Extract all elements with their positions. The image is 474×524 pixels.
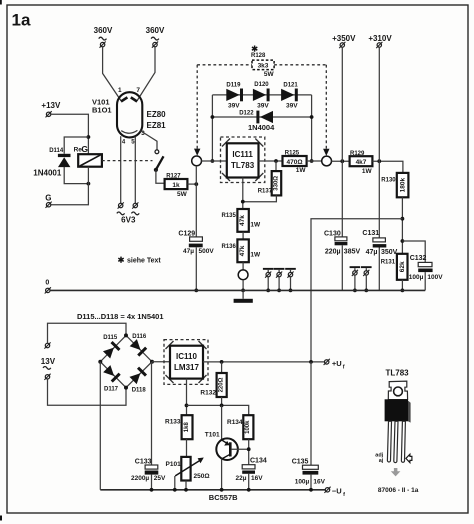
switch blade <box>156 156 164 169</box>
svg-text:100k: 100k <box>245 420 251 434</box>
terminal 360V right <box>152 42 158 48</box>
wire bottom rail <box>100 489 325 491</box>
svg-text:C132: C132 <box>410 255 427 262</box>
wire T101 base to R134/C134 <box>232 448 249 450</box>
wire R136 to node circle <box>242 262 244 270</box>
cathode arc inside tube <box>121 130 137 133</box>
svg-text:R137: R137 <box>258 188 273 194</box>
terminal +350V <box>339 42 345 48</box>
package leg 1 <box>387 421 391 462</box>
wire IC111 output to R125 <box>259 160 283 162</box>
package hole <box>394 387 403 396</box>
svg-text:EZ81: EZ81 <box>147 121 167 130</box>
tube V101 EZ80/EZ81 envelope <box>117 92 142 137</box>
wire bridge minus down to bottom rail <box>99 362 101 490</box>
svg-text:aj: aj <box>379 458 384 464</box>
svg-text:100µ: 100µ <box>409 274 424 281</box>
arrow marker pointing left <box>406 454 412 462</box>
wire blade to R127 <box>156 170 165 183</box>
wire P101 bottom to rail <box>185 481 187 490</box>
svg-text:47µ: 47µ <box>366 249 378 256</box>
note siehe Text <box>118 257 123 263</box>
wire 13V upper to bridge top <box>48 323 127 343</box>
terminal heater left <box>118 202 124 208</box>
svg-text:D122: D122 <box>239 111 254 117</box>
svg-text:250Ω: 250Ω <box>194 473 210 480</box>
svg-text:470Ω: 470Ω <box>286 159 302 166</box>
package leg 3 <box>401 421 405 462</box>
wire +310V rail down to C131 <box>378 47 380 238</box>
terminal G <box>46 202 52 208</box>
svg-text:87006 - II - 1a: 87006 - II - 1a <box>378 487 419 494</box>
svg-text:D116: D116 <box>132 334 147 340</box>
terminal 13V lower <box>44 374 50 380</box>
dashed control path horizontal <box>197 64 252 66</box>
svg-text:0: 0 <box>45 279 49 286</box>
terminal heater right <box>132 202 138 208</box>
package tab <box>388 381 407 400</box>
svg-text:39V: 39V <box>228 103 240 110</box>
svg-text:5W: 5W <box>264 71 275 78</box>
resistor R132 220ohm <box>221 362 223 373</box>
svg-text:1N4004: 1N4004 <box>248 123 275 132</box>
svg-text:180k: 180k <box>400 177 407 192</box>
svg-text:6V3: 6V3 <box>121 215 136 224</box>
svg-text:100µ: 100µ <box>295 478 310 485</box>
svg-text:+350V: +350V <box>332 34 356 43</box>
wire lead to tube pin 7 <box>137 47 155 101</box>
wire cathode pin3 to switch contact <box>140 131 157 150</box>
heater pin 5 wire <box>134 137 136 204</box>
svg-text:62k: 62k <box>399 261 406 272</box>
solder pin 5 <box>361 266 372 292</box>
svg-text:330Ω: 330Ω <box>273 176 279 191</box>
wire R134 bottom <box>248 439 250 465</box>
heater pin 4 wire <box>120 136 122 203</box>
wire 0 rail <box>50 289 425 291</box>
svg-text:16V: 16V <box>313 478 325 485</box>
wire 13V lower to bridge bottom <box>48 379 127 405</box>
wire D114 to bottom node <box>64 167 88 184</box>
svg-text:500V: 500V <box>199 248 215 255</box>
capacitor C133 2200u 25V <box>151 362 153 465</box>
svg-text:TL783: TL783 <box>386 369 410 378</box>
wire R133 to P101 <box>186 439 188 457</box>
svg-text:1W: 1W <box>362 168 373 175</box>
op-amp regulator IC111 TL783 <box>221 137 265 183</box>
package leg 2 <box>394 421 398 462</box>
svg-text:47k: 47k <box>239 215 246 226</box>
wire relay bottom to G terminal <box>51 167 88 205</box>
gray down arrow <box>391 468 401 476</box>
solder pin 3 <box>285 268 296 292</box>
svg-text:350V: 350V <box>381 249 398 256</box>
capacitor C135 100u 16V <box>310 362 312 465</box>
svg-text:TL783: TL783 <box>231 161 255 170</box>
regulator IC110 LM317 <box>164 340 208 385</box>
junction bottom of D114/relay <box>87 182 91 186</box>
solder pin 2 <box>274 268 285 292</box>
svg-text:G: G <box>45 193 51 202</box>
wire D122 row <box>212 116 311 118</box>
svg-text:1a: 1a <box>12 10 31 29</box>
terminal +310V <box>376 42 382 48</box>
wire left vertical of diode block <box>211 95 213 161</box>
terminal 13V upper <box>44 342 50 348</box>
svg-text:LM317: LM317 <box>174 363 199 372</box>
svg-text:7: 7 <box>136 87 140 94</box>
wire IC110 output to +Uf <box>203 361 325 363</box>
wire P101 wiper to rail <box>174 476 176 490</box>
svg-text:R134: R134 <box>227 419 243 426</box>
terminal +Uf <box>324 359 330 365</box>
anode plate pin1 <box>121 97 127 101</box>
svg-text:D117: D117 <box>104 387 119 393</box>
package body <box>385 399 408 421</box>
svg-text:2200µ: 2200µ <box>131 475 149 482</box>
wire +350V rail down to C130 <box>341 47 343 237</box>
svg-text:39V: 39V <box>286 103 298 110</box>
svg-text:1k: 1k <box>172 182 180 189</box>
terminal +13V <box>46 111 52 117</box>
ground symbol <box>242 290 244 298</box>
node circle ground junction <box>238 270 248 280</box>
svg-text:R135: R135 <box>222 213 237 219</box>
svg-text:13V: 13V <box>41 357 56 366</box>
wire R135 to R136 <box>242 232 244 240</box>
svg-text:siehe Text: siehe Text <box>127 257 161 264</box>
svg-text:D119: D119 <box>226 82 241 88</box>
terminal -Uf <box>324 487 330 493</box>
svg-text:P101: P101 <box>166 461 182 468</box>
bridge rectifier diamond <box>100 335 152 387</box>
wire right vertical of diode block <box>311 95 313 161</box>
wire emitter line down to T101 <box>221 405 223 440</box>
wire +13V to relay top node <box>51 114 88 154</box>
svg-text:BC557B: BC557B <box>209 493 238 502</box>
solder pin 1 <box>263 268 274 292</box>
wire circle to R129 <box>332 160 350 162</box>
svg-text:R132: R132 <box>200 390 216 397</box>
svg-text:39V: 39V <box>257 103 269 110</box>
wire IC110 adj down <box>186 379 188 416</box>
svg-text:R136: R136 <box>222 244 237 250</box>
svg-text:R128: R128 <box>251 53 266 59</box>
svg-text:D114: D114 <box>49 148 64 154</box>
wire adj node line <box>187 405 249 415</box>
svg-text:D121: D121 <box>283 82 298 88</box>
svg-text:385V: 385V <box>344 249 361 256</box>
svg-text:IC111: IC111 <box>232 150 253 159</box>
svg-text:25V: 25V <box>154 475 166 482</box>
svg-text:1k8: 1k8 <box>184 422 190 433</box>
junction top of D114/relay <box>87 135 91 139</box>
svg-text:1W: 1W <box>296 167 307 174</box>
svg-text:IC110: IC110 <box>176 352 197 361</box>
capacitor C132 100u 100V <box>402 241 425 262</box>
svg-text:+310V: +310V <box>368 34 392 43</box>
svg-text:1W: 1W <box>250 252 261 259</box>
svg-text:220µ: 220µ <box>325 249 341 256</box>
wire bridge plus to IC110 <box>152 361 170 363</box>
svg-text:D118: D118 <box>132 388 147 394</box>
wire to D114 <box>64 137 88 154</box>
svg-text:5W: 5W <box>177 191 188 198</box>
terminal 0 <box>45 287 51 293</box>
capacitor C129 47u 500V <box>195 166 197 237</box>
wire R125 to circle node <box>307 160 322 162</box>
svg-text:22µ: 22µ <box>236 475 247 482</box>
svg-text:f: f <box>343 364 345 370</box>
svg-text:f: f <box>343 492 345 498</box>
svg-text:C134: C134 <box>250 457 267 464</box>
svg-text:C133: C133 <box>135 458 152 465</box>
junction R127/C129 <box>194 182 198 186</box>
svg-text:360V: 360V <box>94 26 113 35</box>
svg-text:16V: 16V <box>251 475 263 482</box>
svg-text:−U: −U <box>332 487 342 496</box>
terminal 360V left <box>100 42 106 48</box>
wire feedback line to lower section <box>311 219 402 362</box>
svg-text:1: 1 <box>118 87 122 94</box>
svg-text:C131: C131 <box>362 230 379 237</box>
switch contact circle <box>155 150 159 154</box>
mechanical dashed link relay to switch <box>102 160 153 162</box>
svg-text:EZ80: EZ80 <box>147 110 167 119</box>
svg-text:B1O1: B1O1 <box>92 106 112 115</box>
svg-text:220Ω: 220Ω <box>218 377 224 392</box>
svg-text:D115...D118 = 4x 1N5401: D115...D118 = 4x 1N5401 <box>77 312 164 321</box>
wire circle to IC111 <box>202 160 227 162</box>
svg-text:100V: 100V <box>427 274 443 281</box>
wire R127 to node <box>187 183 196 185</box>
wire IC111 adj down <box>242 178 244 210</box>
svg-text:G: G <box>81 144 88 154</box>
svg-text:1N4001: 1N4001 <box>33 169 62 178</box>
solder pin 4 <box>350 266 361 292</box>
wire R130 down to R131 <box>401 197 403 254</box>
svg-text:360V: 360V <box>146 26 165 35</box>
svg-text:T101: T101 <box>205 432 220 439</box>
svg-text:4k7: 4k7 <box>356 159 367 166</box>
svg-text:D115: D115 <box>103 335 118 341</box>
svg-text:R130: R130 <box>381 178 396 184</box>
node circle right (sense junction) <box>322 156 332 166</box>
svg-text:1W: 1W <box>250 222 261 229</box>
svg-text:D120: D120 <box>254 82 269 88</box>
svg-text:3k3: 3k3 <box>258 63 269 70</box>
svg-text:+13V: +13V <box>41 101 61 110</box>
node circle left (input junction) <box>192 156 202 166</box>
wire zener row top <box>212 94 311 96</box>
svg-text:47k: 47k <box>239 245 246 256</box>
asterisk above R128 <box>252 46 257 52</box>
wire R137 to adj node <box>243 195 277 201</box>
anode plate pin7 <box>131 97 137 101</box>
wire lead to tube pin 1 <box>103 47 122 101</box>
svg-text:C135: C135 <box>292 458 309 465</box>
svg-text:R133: R133 <box>165 419 181 426</box>
svg-text:47µ: 47µ <box>183 248 194 255</box>
resistor R137 330ohm <box>275 161 277 171</box>
dashed control path right vertical with arrow <box>325 65 327 149</box>
svg-text:+U: +U <box>332 359 342 368</box>
svg-text:R131: R131 <box>381 260 396 266</box>
wire R129 to R130 corner <box>372 161 403 173</box>
dashed control path left vertical with arrow <box>196 65 198 149</box>
